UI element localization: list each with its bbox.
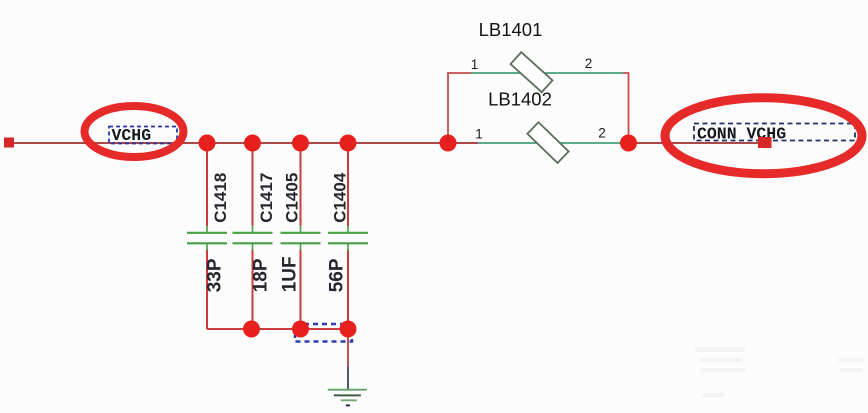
svg-text:18P: 18P: [251, 258, 272, 292]
svg-text:33P: 33P: [205, 258, 226, 292]
svg-text:C1418: C1418: [211, 173, 230, 223]
svg-text:2: 2: [598, 126, 606, 141]
svg-text:C1405: C1405: [283, 173, 302, 223]
svg-text:C1404: C1404: [331, 172, 350, 223]
svg-text:LB1401: LB1401: [479, 19, 543, 40]
svg-text:CONN VCHG: CONN VCHG: [697, 125, 786, 144]
svg-text:VCHG: VCHG: [112, 126, 152, 145]
svg-text:2: 2: [585, 56, 593, 71]
svg-text:56P: 56P: [327, 258, 348, 292]
svg-text:LB1402: LB1402: [488, 89, 552, 110]
svg-text:1: 1: [475, 127, 483, 142]
svg-text:C1417: C1417: [257, 173, 276, 223]
svg-text:1: 1: [471, 57, 479, 72]
svg-text:1UF: 1UF: [280, 256, 301, 292]
